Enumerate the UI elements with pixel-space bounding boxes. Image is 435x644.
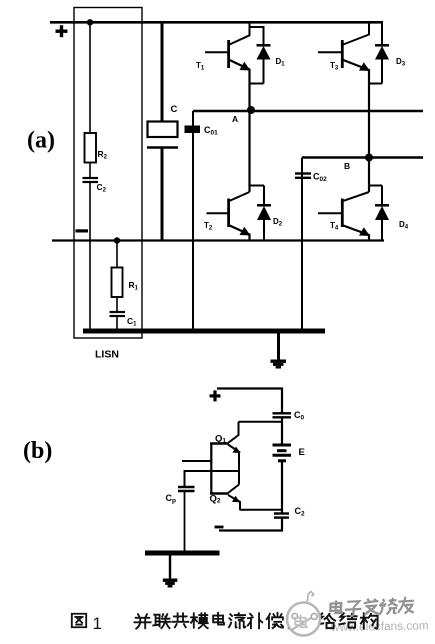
svg-text:A: A	[232, 114, 238, 124]
resistor R1	[112, 268, 123, 298]
svg-text:T2: T2	[204, 221, 213, 232]
ground bar (b)	[145, 551, 220, 556]
svg-text:E: E	[299, 447, 305, 458]
svg-text:B: B	[344, 161, 350, 171]
svg-text:C02: C02	[313, 172, 327, 184]
wire C2 to ground bus	[89, 183, 91, 332]
label R2	[98, 149, 108, 161]
diode D3	[369, 22, 389, 84]
diode D2	[250, 186, 272, 241]
watermark text 电子发烧友	[330, 596, 415, 617]
label T3	[330, 61, 339, 72]
svg-text:D3: D3	[396, 57, 406, 68]
label C02	[313, 172, 327, 184]
svg-text:Q2: Q2	[210, 494, 221, 505]
wire C0 to battery	[281, 418, 283, 444]
wire Q2 emitter to right branch	[240, 509, 283, 511]
capacitor C0	[273, 413, 292, 417]
wire base input line	[182, 460, 211, 462]
label T1	[196, 61, 205, 72]
ground bus bar (a)	[83, 329, 325, 334]
label Cx	[295, 506, 306, 518]
label C0	[294, 410, 305, 422]
label D1	[276, 57, 286, 68]
wire branch R1 top	[116, 241, 118, 268]
capacitor Cp	[178, 487, 195, 491]
wire R1 to C1	[116, 297, 118, 311]
label C01	[204, 125, 218, 137]
transistor T2	[207, 111, 251, 241]
label T2	[204, 221, 213, 232]
svg-text:T3: T3	[330, 61, 339, 72]
faint glyph behind logo	[295, 615, 306, 627]
wire phase A line	[193, 110, 423, 112]
svg-text:www.elecfans.com: www.elecfans.com	[330, 618, 429, 634]
svg-text:T1: T1	[196, 61, 205, 72]
wire (b) top	[217, 389, 282, 413]
svg-text:D4: D4	[399, 220, 409, 231]
label Q1	[215, 434, 226, 445]
resistor R2	[85, 133, 97, 163]
wire DC+ rail	[50, 21, 383, 24]
svg-text:D2: D2	[273, 217, 283, 228]
svg-text:C01: C01	[204, 125, 218, 137]
label T4	[330, 221, 339, 232]
node junction on + rail	[87, 19, 93, 25]
transistor Q2	[210, 485, 240, 510]
LISN box	[74, 8, 142, 339]
node A junction	[247, 106, 255, 114]
label + (b)	[210, 390, 221, 401]
ground symbol (a)	[271, 333, 287, 369]
wire C02 branch	[301, 158, 303, 332]
capacitor Cx	[274, 514, 289, 518]
wire C01 branch	[192, 111, 194, 331]
transistor T3	[318, 23, 370, 158]
label Q2	[210, 494, 221, 505]
diode D1	[250, 26, 271, 84]
label D2	[273, 217, 283, 228]
svg-text:D1: D1	[276, 57, 286, 68]
wire base vertical	[210, 444, 212, 494]
svg-text:R2: R2	[98, 149, 108, 161]
battery E	[273, 445, 292, 461]
node B junction	[365, 154, 373, 162]
wire (b) bottom	[219, 518, 282, 531]
label D3	[396, 57, 406, 68]
wire phase B line	[302, 156, 423, 158]
watermark logo circle	[287, 592, 415, 636]
diode D4	[369, 186, 389, 241]
svg-text:C: C	[171, 104, 178, 115]
capacitor C02	[295, 174, 311, 178]
wire Cp to ground bar	[184, 492, 186, 553]
capacitor C1	[110, 312, 126, 316]
label - (negative terminal)	[76, 229, 89, 232]
label C2	[97, 182, 107, 194]
wire branch R2 top	[89, 22, 91, 133]
wire C1 to ground bus	[116, 317, 118, 332]
capacitor C2	[83, 178, 99, 182]
svg-text:LISN: LISN	[95, 349, 119, 361]
svg-text:1: 1	[93, 614, 102, 633]
transistor T4	[318, 158, 370, 241]
label D4	[399, 220, 409, 231]
transistor Q1	[210, 422, 241, 485]
wire DC-link cap top	[161, 21, 164, 121]
wire Q1 collector to right branch	[239, 421, 283, 423]
node junction on - rail	[114, 237, 120, 243]
svg-text:(b): (b)	[23, 438, 52, 464]
wire DC- rail	[52, 239, 384, 241]
wire battery to Cx	[281, 462, 283, 513]
svg-text:C1: C1	[127, 316, 137, 328]
ground symbol (b)	[163, 555, 178, 588]
label - (b)	[215, 526, 224, 529]
transistor T1	[205, 23, 251, 112]
svg-text:C2: C2	[295, 506, 306, 518]
svg-text:C0: C0	[294, 410, 305, 422]
capacitor C01 (blob)	[185, 126, 201, 134]
svg-text:T4: T4	[330, 221, 339, 232]
wire R2 to C2	[89, 163, 91, 178]
wire DC-link cap bottom	[161, 148, 164, 241]
label Cp	[166, 493, 177, 505]
label C1	[127, 316, 137, 328]
svg-text:(a): (a)	[27, 128, 55, 154]
label + (positive terminal)	[56, 25, 68, 37]
capacitor C (dc link)	[148, 122, 178, 138]
label R1	[129, 280, 139, 292]
svg-text:Cp: Cp	[166, 493, 177, 505]
svg-text:Q1: Q1	[215, 434, 226, 445]
svg-text:C2: C2	[97, 182, 107, 194]
svg-text:R1: R1	[129, 280, 139, 292]
caption 图 1 并联共模电流补偿网络结构	[72, 613, 378, 633]
wire emitter tap line	[185, 471, 239, 486]
